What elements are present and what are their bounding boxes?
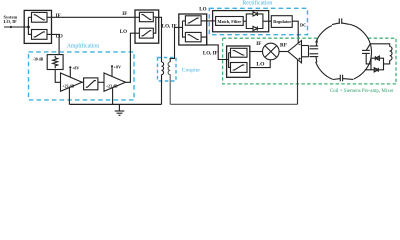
diode CR1 top <box>253 12 257 16</box>
wire +8V to A1 <box>69 68 71 77</box>
wire D4 internal bus <box>227 53 231 68</box>
diplexer D1 outer box <box>24 10 51 43</box>
wire D4 IF out to mixer <box>250 51 263 53</box>
wire D4 LO out to mixer <box>250 60 270 68</box>
filter D3 high-pass (top) <box>185 16 201 25</box>
ground rail left <box>69 103 161 105</box>
coupler dashed enclosure <box>158 58 177 82</box>
wire coupler secondary down leg <box>169 75 171 105</box>
filter D4 high-pass (bottom) <box>231 63 248 73</box>
block Match, Filter <box>216 17 244 26</box>
filter D1 high-pass (LO) <box>32 30 48 40</box>
filter D3 low-pass (bottom) <box>185 32 201 41</box>
mixer U1 <box>263 43 280 60</box>
svg-text:Match, Filter: Match, Filter <box>218 19 242 24</box>
filter D2 high-pass <box>139 28 153 38</box>
diplexer D3 outer box <box>179 14 207 45</box>
wire A2 output up to D2 <box>126 33 136 82</box>
wire D3 internal bus <box>175 21 186 37</box>
wire mid filter to amp A2 <box>98 81 104 83</box>
capacitor C4 coil series bottom <box>333 75 353 82</box>
wire attenuator to amp A1 <box>55 70 60 83</box>
svg-text:+23 dB: +23 dB <box>63 84 75 88</box>
svg-text:Amplification: Amplification <box>67 43 100 50</box>
filter mid high-pass box <box>84 78 98 90</box>
svg-text:LO: LO <box>120 30 127 35</box>
coil gap left <box>311 43 318 62</box>
diplexer D2 outer box <box>135 10 159 43</box>
svg-text:RF: RF <box>280 43 287 49</box>
svg-text:LO: LO <box>256 62 265 68</box>
wire DC output down to preamp <box>292 21 298 43</box>
node +8V supply A2 <box>111 65 113 67</box>
wire D3 top output to rectifier <box>201 20 216 22</box>
op-amp A2 (+23 dB) <box>104 73 126 91</box>
svg-text:-30 dB: -30 dB <box>33 57 44 61</box>
attenuator box <box>47 55 63 70</box>
capacitor C2 matching bottom <box>310 54 319 63</box>
node System LO,IF input label <box>4 15 18 25</box>
wire A1 ground leg <box>68 88 70 105</box>
wire diodes to regulator <box>263 20 271 22</box>
ground rail right (gray) <box>170 103 297 105</box>
filter D2 low-pass <box>139 12 153 21</box>
wire +8V to A2 <box>111 67 113 76</box>
wire match to rectifier diodes <box>243 20 246 22</box>
wire diode ring to coil arc <box>365 69 371 71</box>
wire coupler secondary up to D3 <box>170 27 174 62</box>
wire D1 internal bus <box>28 17 31 34</box>
diode crossed top (left pointing) <box>375 56 379 60</box>
coil loop circle <box>314 24 371 81</box>
wire inductor to diode ring <box>384 60 390 64</box>
Rectification dashed enclosure <box>209 8 307 34</box>
svg-text:+8V: +8V <box>72 65 79 70</box>
diode ring crossed pair <box>371 58 384 70</box>
coil gap bottom for C4 <box>333 74 354 82</box>
coil gap top for C3 <box>332 17 350 27</box>
node preamp plus <box>299 58 301 60</box>
svg-text:Regulator: Regulator <box>273 19 291 24</box>
green dashed enclosure Coil+Siemens <box>223 38 396 84</box>
wire A2 ground leg <box>112 88 114 105</box>
rectifier outer box <box>213 11 269 32</box>
diplexer D4 outer box <box>227 46 250 77</box>
svg-text:LO, IF: LO, IF <box>4 19 18 24</box>
wire A1 to mid filter <box>82 81 84 83</box>
wire mixer RF to preamp <box>279 51 288 53</box>
filter D1 low-pass (IF) <box>32 12 48 22</box>
wire detune top tap <box>370 44 389 47</box>
svg-text:IF: IF <box>56 14 61 19</box>
node preamp minus <box>299 43 301 45</box>
capacitor C5 detune <box>362 44 371 64</box>
svg-text:LO: LO <box>199 8 206 13</box>
svg-text:+23 dB: +23 dB <box>106 84 118 88</box>
op-amp A1 (+23 dB) <box>61 73 83 91</box>
junction dot input <box>10 26 12 28</box>
wire D2 internal bus <box>153 17 156 33</box>
wire D2 output to coupler <box>156 17 162 62</box>
svg-text:Coupler: Coupler <box>182 67 200 73</box>
op-amp preamp U2 <box>288 41 302 63</box>
wire D2 entry stubs <box>135 17 139 33</box>
wire preamp ground riser <box>297 59 299 104</box>
inductor L1 detune <box>390 47 392 61</box>
svg-text:LO, IF: LO, IF <box>203 51 218 56</box>
svg-text:DC: DC <box>300 23 306 28</box>
block Regulator <box>271 16 292 28</box>
diode CR2 bottom <box>253 26 257 30</box>
diode crossed bottom (right pointing) <box>374 68 378 72</box>
capacitor C1 matching top <box>310 41 319 49</box>
filter D4 low-pass (top) <box>231 48 248 57</box>
wire LO from D1 down to attenuator <box>52 34 60 54</box>
wire IF long run D1 to D2 <box>52 16 136 18</box>
wire system input <box>4 26 28 28</box>
rectifier diode ring <box>246 14 263 29</box>
svg-text:Rectification: Rectification <box>242 0 272 7</box>
svg-text:Coil + Siemens Pre-amp, Mixer: Coil + Siemens Pre-amp, Mixer <box>330 89 394 94</box>
resistor zigzag inside attenuator <box>53 56 58 68</box>
wire D1 filter outputs to box edge <box>47 17 52 34</box>
wire D3 bottom output to D4 <box>201 37 227 59</box>
Amplification dashed enclosure <box>29 52 135 100</box>
inductor coupler secondary <box>168 62 170 75</box>
ground symbol <box>115 104 125 115</box>
capacitor C3 coil series top <box>332 18 350 24</box>
node +8V supply A1 <box>69 66 71 68</box>
wire preamp input stubs <box>302 46 309 57</box>
svg-text:IF: IF <box>256 41 261 47</box>
inductor coupler primary <box>162 62 164 75</box>
svg-text:+8V: +8V <box>114 64 121 69</box>
wire coupler primary down leg <box>161 75 163 105</box>
svg-text:IF: IF <box>122 12 127 17</box>
